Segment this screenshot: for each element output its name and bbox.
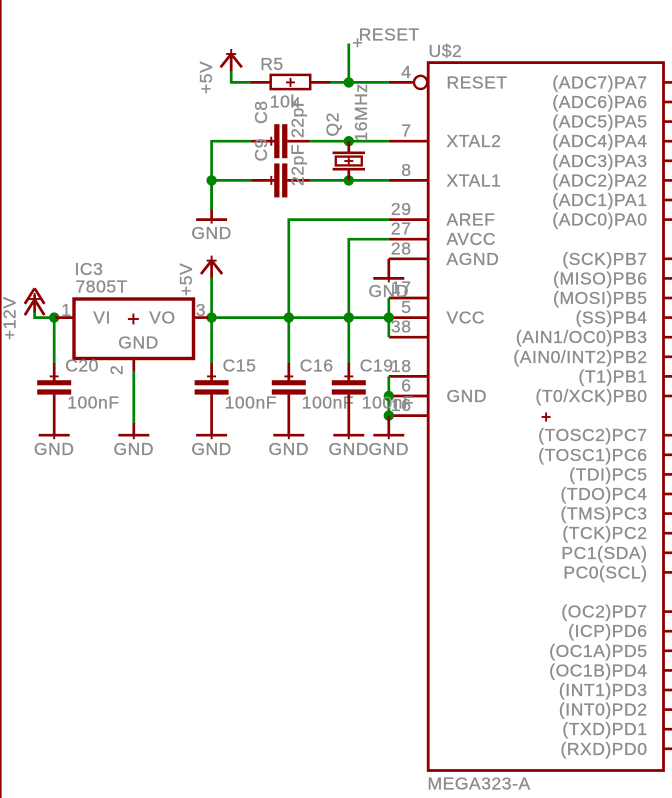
capacitor C16 lead bottom / wire to ground bbox=[287, 395, 290, 436]
svg-text:VO: VO bbox=[149, 308, 175, 328]
ground symbol bbox=[273, 434, 304, 437]
junction C16/AREF node bbox=[284, 312, 294, 322]
svg-text:16MHz: 16MHz bbox=[351, 83, 371, 141]
svg-text:AVCC: AVCC bbox=[447, 229, 497, 249]
regulator IC3 pin 2 lead bbox=[132, 358, 135, 372]
pin stub PC7 bbox=[664, 434, 672, 437]
pin stub PB7 bbox=[664, 257, 672, 260]
pin stub PB0 bbox=[664, 395, 672, 398]
svg-text:29: 29 bbox=[391, 199, 412, 219]
junction XTAL1/crystal bbox=[344, 175, 354, 185]
ground symbol bbox=[196, 218, 227, 221]
crystal Q2 plate top bbox=[333, 151, 365, 154]
pin stub PD5 bbox=[664, 649, 672, 652]
pin stub PA5 bbox=[664, 120, 672, 123]
wire AVCC to +5V rail bbox=[349, 239, 389, 317]
wire pin 16 to ground bbox=[387, 416, 390, 436]
svg-text:GND: GND bbox=[369, 439, 410, 459]
pin stub PD6 bbox=[664, 630, 672, 633]
junction XTAL2/crystal bbox=[344, 136, 354, 146]
svg-text:(INT1)PD3: (INT1)PD3 bbox=[559, 680, 648, 700]
ground symbol bbox=[118, 434, 149, 437]
svg-text:GND: GND bbox=[329, 439, 370, 459]
pin stub PC1 bbox=[664, 551, 672, 554]
svg-text:RESET: RESET bbox=[447, 72, 508, 92]
svg-text:(TOSC1)PC6: (TOSC1)PC6 bbox=[538, 445, 647, 465]
capacitor C9 lead left bbox=[252, 179, 275, 182]
svg-text:7805T: 7805T bbox=[76, 277, 128, 297]
svg-text:VCC: VCC bbox=[447, 308, 486, 328]
regulator IC3 body bbox=[74, 299, 194, 359]
svg-text:VI: VI bbox=[93, 308, 111, 328]
pin 17 stub bbox=[389, 297, 428, 300]
pin 6 stub bbox=[389, 395, 428, 398]
net label RESET origin cross bbox=[353, 38, 362, 47]
svg-text:GND: GND bbox=[447, 386, 488, 406]
wire +5V rail to C16 bbox=[287, 318, 290, 364]
wire +5V rail to C19 bbox=[347, 318, 350, 364]
pin stub PD3 bbox=[664, 689, 672, 692]
svg-text:GND: GND bbox=[369, 281, 410, 301]
capacitor C9 lead right bbox=[287, 179, 309, 182]
wire main +5V rail bbox=[206, 316, 389, 319]
svg-text:GND: GND bbox=[118, 333, 159, 353]
pin 4 RESET stub bbox=[389, 81, 414, 84]
pin stub PC3 bbox=[664, 512, 672, 515]
svg-text:100nF: 100nF bbox=[362, 393, 414, 413]
svg-text:(TMS)PC3: (TMS)PC3 bbox=[560, 504, 647, 524]
pin stub PC2 bbox=[664, 532, 672, 535]
capacitor C9 origin cross bbox=[267, 176, 276, 185]
crystal Q2 plate bottom bbox=[333, 168, 365, 171]
pin 16 stub bbox=[389, 414, 428, 417]
resistor R5 body bbox=[271, 75, 311, 89]
svg-text:(T1)PB1: (T1)PB1 bbox=[578, 366, 647, 386]
svg-text:(ADC7)PA7: (ADC7)PA7 bbox=[552, 72, 647, 92]
svg-text:22pF: 22pF bbox=[288, 96, 308, 138]
capacitor C15 lead top bbox=[210, 363, 213, 380]
svg-text:100nF: 100nF bbox=[302, 393, 354, 413]
pin stub PB1 bbox=[664, 375, 672, 378]
junction RESET node bbox=[344, 77, 354, 87]
pin stub PD1 bbox=[664, 728, 672, 731]
pin 38 stub bbox=[389, 336, 428, 339]
svg-text:8: 8 bbox=[401, 160, 411, 180]
pin stub PC4 bbox=[664, 493, 672, 496]
pin stub PA3 bbox=[664, 159, 672, 162]
pin stub PB5 bbox=[664, 297, 672, 300]
svg-text:Q2: Q2 bbox=[323, 112, 343, 136]
crystal Q2 lead bottom bbox=[347, 169, 350, 180]
svg-text:(AIN0/INT2)PB2: (AIN0/INT2)PB2 bbox=[513, 347, 647, 367]
svg-text:7: 7 bbox=[401, 121, 411, 141]
svg-text:(ADC0)PA0: (ADC0)PA0 bbox=[552, 210, 647, 230]
ground symbol bbox=[196, 434, 227, 437]
svg-text:PC1(SDA): PC1(SDA) bbox=[561, 543, 647, 563]
svg-text:RESET: RESET bbox=[359, 25, 420, 45]
wire VCC pins 17-5-38 vertical bbox=[387, 298, 390, 337]
svg-text:GND: GND bbox=[191, 223, 232, 243]
svg-text:(SCK)PB7: (SCK)PB7 bbox=[562, 249, 647, 269]
svg-text:C20: C20 bbox=[65, 356, 99, 376]
pin stub PA0 bbox=[664, 218, 672, 221]
svg-text:(ADC2)PA2: (ADC2)PA2 bbox=[552, 170, 647, 190]
wire C8/C9 left vertical bbox=[210, 140, 213, 210]
capacitor C19 lead top bbox=[347, 363, 350, 380]
crystal Q2 lead top bbox=[347, 141, 350, 153]
svg-text:(ADC5)PA5: (ADC5)PA5 bbox=[552, 112, 647, 132]
wire R5 to pin 4 bbox=[330, 81, 389, 84]
ground symbol bbox=[333, 434, 364, 437]
regulator IC3 pin 1 lead bbox=[55, 316, 74, 319]
frame left border bbox=[0, 0, 2, 798]
wire regulator pin 2 to ground bbox=[132, 371, 135, 424]
pin stub PA6 bbox=[664, 101, 672, 104]
svg-text:2: 2 bbox=[107, 365, 127, 375]
svg-text:(MISO)PB6: (MISO)PB6 bbox=[553, 268, 647, 288]
svg-text:+12V: +12V bbox=[0, 296, 20, 340]
wire +5V to R5 bbox=[231, 81, 251, 84]
junction C19/AVCC node bbox=[344, 312, 354, 322]
ground symbol bbox=[39, 434, 70, 437]
svg-text:(MOSI)PB5: (MOSI)PB5 bbox=[553, 288, 647, 308]
svg-text:(AIN1/OC0)PB3: (AIN1/OC0)PB3 bbox=[516, 327, 648, 347]
svg-text:(OC1A)PD5: (OC1A)PD5 bbox=[549, 641, 647, 661]
svg-text:4: 4 bbox=[401, 62, 411, 82]
pin 29 stub bbox=[389, 218, 428, 221]
capacitor C16 plates bbox=[272, 380, 306, 385]
resistor R5 origin cross bbox=[286, 78, 295, 87]
pin stub PA1 bbox=[664, 199, 672, 202]
capacitor C16 lead top bbox=[287, 363, 290, 380]
svg-text:R5: R5 bbox=[260, 54, 283, 74]
svg-text:(TOSC2)PC7: (TOSC2)PC7 bbox=[538, 425, 647, 445]
capacitor C19 lead bottom / wire to ground bbox=[347, 395, 350, 436]
pin stub PB2 bbox=[664, 355, 672, 358]
crystal Q2 origin cross bbox=[344, 157, 353, 166]
capacitor C20 lead top bbox=[53, 363, 56, 380]
pin 28 stub bbox=[389, 257, 428, 260]
wire XTAL1 row right bbox=[310, 179, 389, 182]
svg-text:AREF: AREF bbox=[447, 210, 496, 230]
svg-text:100nF: 100nF bbox=[67, 393, 119, 413]
svg-text:AGND: AGND bbox=[447, 249, 500, 269]
svg-text:(OC1B)PD4: (OC1B)PD4 bbox=[549, 660, 647, 680]
wire AREF to +5V rail bbox=[289, 220, 389, 318]
svg-text:C9: C9 bbox=[251, 138, 271, 161]
svg-text:XTAL2: XTAL2 bbox=[447, 131, 502, 151]
svg-text:(SS)PB4: (SS)PB4 bbox=[576, 308, 648, 328]
pin 27 stub bbox=[389, 238, 428, 241]
svg-text:U$2: U$2 bbox=[429, 41, 463, 61]
svg-text:18: 18 bbox=[391, 356, 412, 376]
svg-text:GND: GND bbox=[114, 439, 155, 459]
wire RESET label to junction bbox=[347, 44, 350, 83]
svg-text:GND: GND bbox=[269, 439, 310, 459]
crystal Q2 body bbox=[336, 157, 362, 166]
svg-text:C8: C8 bbox=[251, 101, 271, 124]
svg-text:(OC2)PD7: (OC2)PD7 bbox=[561, 602, 647, 622]
wire C9 junction to ground bbox=[210, 180, 213, 209]
supply +5V symbol (above rail) bbox=[201, 256, 222, 279]
IC U$2 origin cross bbox=[542, 413, 551, 422]
svg-text:+5V: +5V bbox=[176, 263, 196, 296]
svg-text:GND: GND bbox=[191, 439, 232, 459]
svg-text:(TCK)PC2: (TCK)PC2 bbox=[562, 523, 647, 543]
svg-text:(T0/XCK)PB0: (T0/XCK)PB0 bbox=[535, 386, 647, 406]
svg-text:(ICP)PD6: (ICP)PD6 bbox=[568, 621, 647, 641]
capacitor C8 lead right bbox=[287, 140, 309, 143]
capacitor C8 origin cross bbox=[267, 137, 276, 146]
pin stub PC5 bbox=[664, 473, 672, 476]
svg-text:38: 38 bbox=[391, 317, 412, 337]
svg-text:C15: C15 bbox=[223, 356, 257, 376]
capacitor C16 origin cross bbox=[284, 372, 293, 381]
pin stub PB3 bbox=[664, 336, 672, 339]
supply +12V symbol bbox=[25, 288, 45, 315]
svg-text:GND: GND bbox=[34, 439, 75, 459]
pin 7 stub bbox=[389, 140, 428, 143]
wire +12V to regulator bbox=[35, 312, 56, 318]
svg-text:(ADC1)PA1: (ADC1)PA1 bbox=[552, 190, 647, 210]
junction C20 node bbox=[49, 312, 59, 322]
pin 5 stub bbox=[389, 316, 428, 319]
ground symbol bbox=[373, 434, 404, 437]
wire XTAL2 row right bbox=[310, 140, 389, 143]
wire GND pins 18-6-16 vertical bbox=[387, 376, 390, 415]
svg-text:28: 28 bbox=[391, 238, 412, 258]
svg-text:22pF: 22pF bbox=[288, 144, 308, 186]
pin stub PA4 bbox=[664, 140, 672, 143]
resistor R5 lead left bbox=[251, 81, 271, 84]
junction GND pin 16 bbox=[384, 410, 394, 420]
wire XTAL2 row left bbox=[212, 140, 252, 143]
junction C15/+5V node bbox=[206, 312, 216, 322]
capacitor C20 plates bbox=[37, 380, 71, 385]
capacitor C20 origin cross bbox=[50, 372, 59, 381]
svg-text:(INT0)PD2: (INT0)PD2 bbox=[559, 700, 648, 720]
svg-text:100nF: 100nF bbox=[225, 393, 277, 413]
pin stub PD7 bbox=[664, 610, 672, 613]
pin stub PA2 bbox=[664, 179, 672, 182]
wire XTAL1 row left bbox=[212, 179, 252, 182]
svg-text:(TDI)PC5: (TDI)PC5 bbox=[569, 464, 647, 484]
ground symbol bbox=[373, 277, 404, 280]
svg-text:+5V: +5V bbox=[196, 61, 216, 94]
regulator IC3 origin cross bbox=[128, 314, 139, 325]
svg-text:27: 27 bbox=[391, 219, 412, 239]
junction GND pin 6 bbox=[384, 391, 394, 401]
svg-text:XTAL1: XTAL1 bbox=[447, 170, 502, 190]
capacitor C15 origin cross bbox=[207, 372, 216, 381]
capacitor C15 plates bbox=[195, 380, 229, 385]
wire +5V rail to C20 bbox=[53, 318, 56, 364]
svg-text:(ADC6)PA6: (ADC6)PA6 bbox=[552, 92, 647, 112]
pin stub PB6 bbox=[664, 277, 672, 280]
svg-text:(RXD)PD0: (RXD)PD0 bbox=[560, 739, 647, 759]
svg-text:(ADC3)PA3: (ADC3)PA3 bbox=[552, 151, 647, 171]
wire +5V stem bbox=[230, 71, 233, 84]
resistor R5 lead right bbox=[310, 81, 330, 84]
IC U$2 MEGA323-A body bbox=[428, 63, 663, 771]
pin stub PD2 bbox=[664, 708, 672, 711]
svg-text:(TDO)PC4: (TDO)PC4 bbox=[560, 484, 647, 504]
capacitor C19 origin cross bbox=[344, 372, 353, 381]
capacitor C8 plates bbox=[274, 124, 279, 158]
pin 4 inverting bubble bbox=[414, 76, 427, 89]
svg-text:3: 3 bbox=[196, 300, 206, 320]
capacitor C15 lead bottom / wire to ground bbox=[210, 395, 213, 436]
junction VCC pin 5 bbox=[384, 312, 394, 322]
wire +5V rail to C15 bbox=[210, 318, 213, 364]
wire AGND to ground bbox=[387, 259, 390, 279]
svg-text:1: 1 bbox=[61, 300, 71, 320]
svg-text:(TXD)PD1: (TXD)PD1 bbox=[562, 719, 647, 739]
capacitor C9 plates bbox=[274, 163, 279, 197]
svg-text:C16: C16 bbox=[300, 356, 334, 376]
pin 8 stub bbox=[389, 179, 428, 182]
junction C9 left bbox=[206, 175, 216, 185]
supply +5V symbol (top) bbox=[221, 49, 242, 72]
capacitor C20 lead bottom / wire to ground bbox=[53, 395, 56, 436]
pin stub PC6 bbox=[664, 453, 672, 456]
capacitor C8 lead left bbox=[252, 140, 275, 143]
pin 18 stub bbox=[389, 375, 428, 378]
svg-text:C19: C19 bbox=[360, 356, 394, 376]
regulator IC3 pin 3 lead bbox=[194, 316, 209, 319]
pin stub PD0 bbox=[664, 747, 672, 750]
capacitor C19 plates bbox=[332, 380, 366, 385]
svg-text:MEGA323-A: MEGA323-A bbox=[428, 774, 531, 794]
pin stub PC0 bbox=[664, 571, 672, 574]
pin stub PA7 bbox=[664, 81, 672, 84]
wire +5V stem to rail bbox=[210, 278, 213, 318]
pin stub PD4 bbox=[664, 669, 672, 672]
pin stub PB4 bbox=[664, 316, 672, 319]
svg-text:(ADC4)PA4: (ADC4)PA4 bbox=[552, 131, 647, 151]
svg-text:PC0(SCL): PC0(SCL) bbox=[563, 562, 647, 582]
